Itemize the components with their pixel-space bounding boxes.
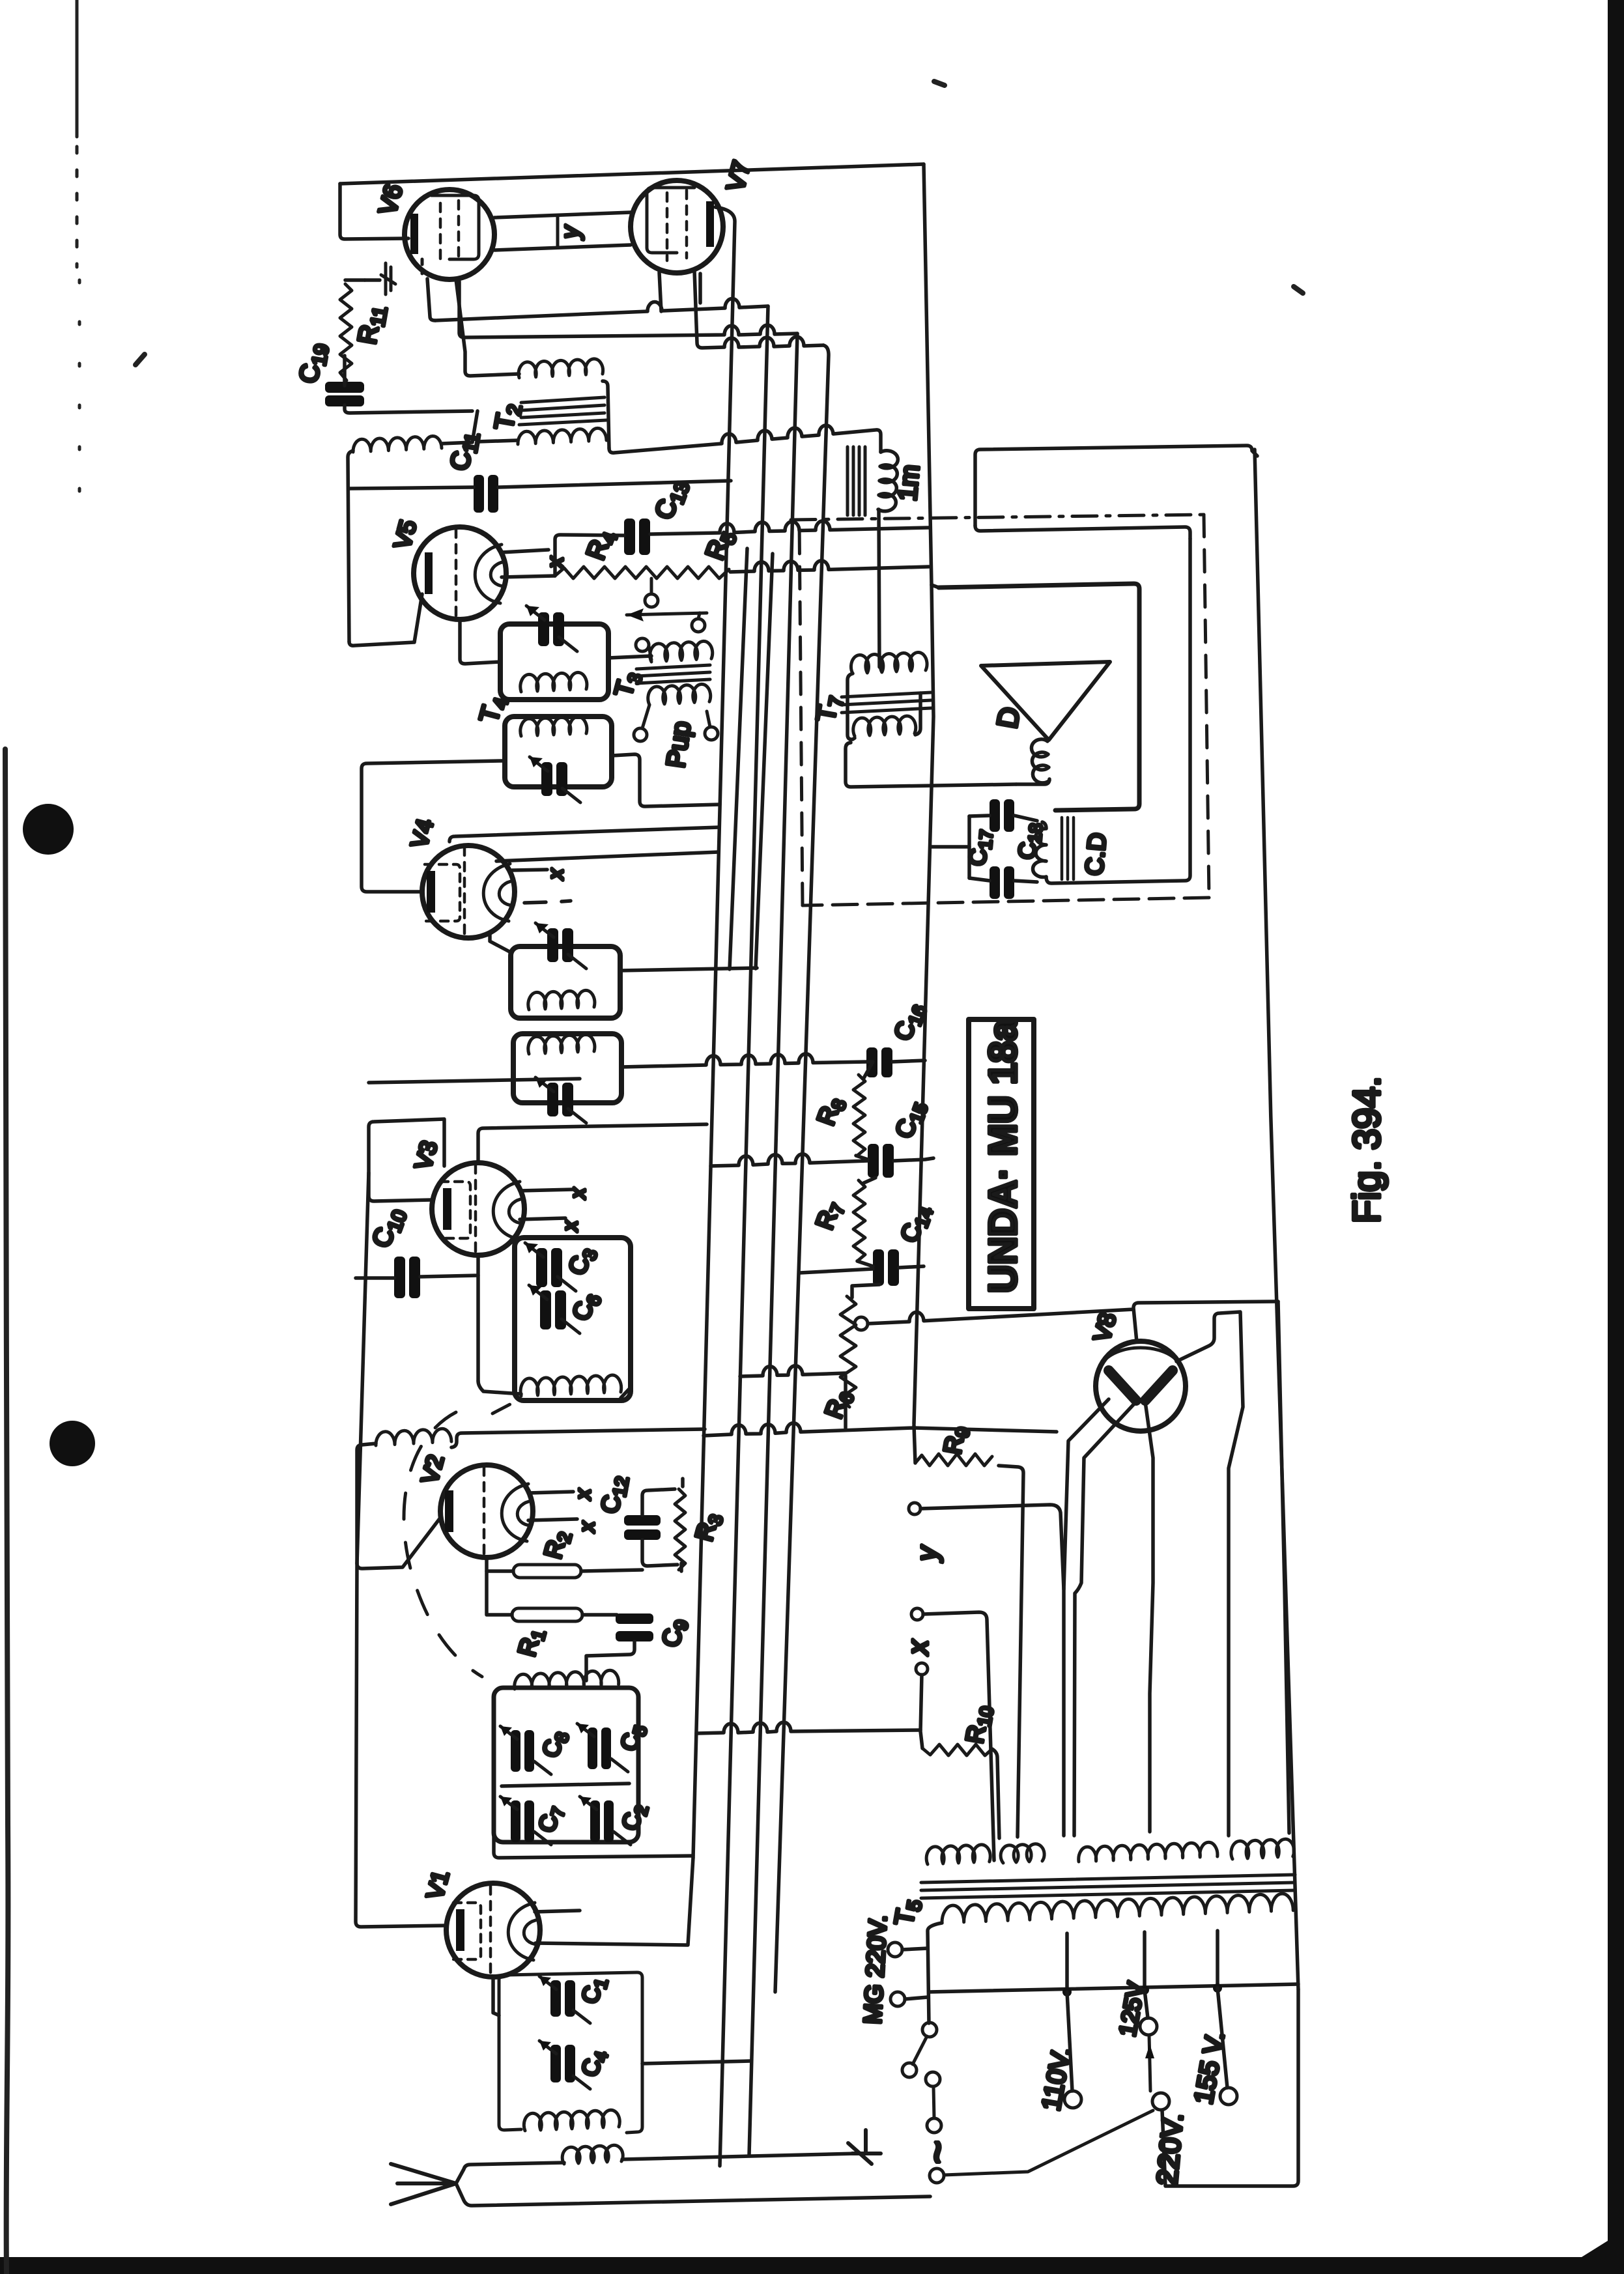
wire C19 bottom to T2 primary left bbox=[345, 405, 472, 413]
wire trimmer mid rail bbox=[502, 1784, 629, 1786]
stray marks bbox=[135, 354, 145, 365]
wire V5 x stub top bbox=[502, 550, 548, 552]
wire grid coupling box top bbox=[494, 212, 631, 218]
box V3 tuned circuit bbox=[515, 1238, 631, 1400]
wire R5 right lead bbox=[730, 561, 929, 572]
coil V2 grid tank bbox=[376, 1428, 451, 1445]
wire R9 left lead from busE corner bbox=[914, 1425, 915, 1463]
wire V5 cathode to can A bbox=[460, 619, 500, 664]
wire C10 left lead bbox=[356, 1276, 394, 1280]
wire T7 sec right to speaker bbox=[915, 693, 920, 735]
wire V8 right side down bbox=[1176, 1312, 1243, 1836]
trimmer C8 bbox=[511, 1730, 534, 1772]
IF can A (below V5): box with trimmer cap top, coil bottom bbox=[500, 606, 608, 700]
wire C13 left lead bbox=[555, 535, 624, 576]
wire coil to bus bbox=[478, 1381, 631, 1398]
wire V8 left lead bbox=[1064, 1399, 1109, 1836]
capacitor C17 bbox=[990, 866, 1014, 899]
tap 155V bbox=[1218, 1988, 1227, 2088]
IF can B bbox=[505, 717, 612, 803]
wire R7 top bbox=[864, 1178, 876, 1183]
wire antenna top line bbox=[456, 2163, 564, 2183]
wire V1 grid from long left vertical bbox=[356, 1173, 447, 1927]
wire h run at 1782 from bus bbox=[711, 1154, 868, 1166]
wire can A right to T3 bbox=[608, 656, 651, 658]
wire V1 x stubs bbox=[535, 1911, 580, 1912]
capacitor C12 bbox=[624, 1515, 661, 1540]
wire can D left link down bbox=[369, 1079, 580, 1083]
wire y lead right bbox=[920, 1505, 1064, 1589]
tube V1 bbox=[446, 1883, 540, 1977]
wire grid coupling box bottom bbox=[494, 245, 631, 250]
wire 1m bottom to T7 primary bbox=[879, 509, 879, 667]
coil in can B bbox=[520, 717, 587, 736]
wire V5 grid left bbox=[349, 594, 422, 646]
wire rail lead to bus bbox=[932, 845, 969, 849]
speaker cone D triangle bbox=[981, 662, 1110, 740]
wire bus B bbox=[720, 306, 768, 2166]
wire R1 left lead bbox=[487, 1571, 512, 1615]
wire V7 lead left drop bbox=[659, 272, 661, 311]
coil T2 secondary right winding bbox=[518, 428, 606, 444]
T5 core bbox=[921, 1875, 1295, 1898]
wire V8 anode top to frame line bbox=[1133, 1301, 1278, 1342]
dashed box bottom bbox=[803, 898, 1209, 905]
box outline drawn as path (open top-left where tube lead enters) bbox=[499, 1972, 642, 2133]
svg-text:~: ~ bbox=[915, 2140, 960, 2164]
terminal MG top bbox=[888, 1942, 902, 1957]
IF can D bbox=[513, 1034, 621, 1123]
wire V1 plate right to bus bbox=[535, 1858, 693, 1945]
svg-text:y: y bbox=[911, 1544, 943, 1563]
wire R10 right down to T5 bbox=[992, 1749, 999, 1838]
capacitor C18 bbox=[990, 799, 1014, 832]
wire T7 sec bottom run bbox=[846, 743, 1016, 787]
box around D speaker bbox=[939, 584, 1139, 810]
wire C12 top lead bbox=[642, 1489, 675, 1515]
wire right frame bottom hook to 220V bbox=[1162, 1989, 1298, 2186]
wire V4 cathode down to can C bbox=[490, 933, 511, 952]
wire h run 2196 bbox=[704, 1423, 1057, 1436]
wire can B right lead bbox=[612, 754, 720, 806]
wire C11 left lead bbox=[349, 487, 474, 489]
wire wiper arrow run bbox=[627, 613, 707, 615]
wire MG top lead bbox=[902, 1948, 928, 1950]
wire bus C companion (doubled run) bbox=[756, 554, 773, 969]
trimmer C1 bbox=[550, 1980, 575, 2017]
wire V7 lead right drop bbox=[694, 271, 823, 348]
wire C10 right lead to V3 cathode bbox=[420, 1256, 478, 1277]
wire R2 right lead bbox=[581, 1570, 642, 1571]
left edge scratch bbox=[5, 749, 8, 2274]
dashed box left side bbox=[799, 521, 803, 905]
capacitor C15 bbox=[868, 1144, 894, 1178]
junction dots bbox=[1062, 1987, 1072, 1997]
V1 tuned box bbox=[499, 1972, 642, 2133]
terminal stub above R10 bbox=[916, 1663, 928, 1675]
wire V3 cathode down bbox=[476, 1275, 480, 1381]
coil T2 primary (top) bbox=[519, 359, 603, 378]
tube V7 bbox=[631, 180, 723, 273]
wire R3 ends bbox=[681, 1479, 683, 1571]
resistor cartridge R1 bbox=[512, 1608, 582, 1621]
trimmer cap in can A bbox=[538, 612, 564, 646]
transformer T5 HT winding bbox=[1079, 1842, 1218, 1862]
wire bus A bbox=[693, 207, 735, 1858]
wire R6 wiper to busE bbox=[868, 1309, 1133, 1324]
svg-text:x: x bbox=[558, 1220, 582, 1232]
dashed box right side bbox=[1204, 515, 1209, 898]
binding hole 2 bbox=[50, 1421, 95, 1466]
wire R1 right lead bbox=[582, 1613, 617, 1617]
svg-text:Fig. 394.: Fig. 394. bbox=[1346, 1076, 1388, 1223]
transformer T7 primary coil bbox=[851, 652, 927, 674]
wire h3 to 1m choke bbox=[609, 425, 881, 453]
wire V2 x stubs bbox=[528, 1492, 577, 1520]
wire C14 junction bbox=[857, 1261, 924, 1268]
wire switch lever to 220V bbox=[944, 2111, 1153, 2175]
band switch dashed arc bbox=[404, 1412, 482, 1677]
resistor R8 bbox=[853, 1075, 865, 1156]
scan edge bottom bar bbox=[0, 2241, 1608, 2274]
coil T3 primary bbox=[650, 641, 713, 662]
svg-text:x: x bbox=[902, 1639, 934, 1656]
coil V3 cathode tank bbox=[520, 1375, 621, 1396]
switch bottom contact bbox=[930, 2168, 944, 2183]
wire V2 grid left bbox=[357, 1518, 440, 1569]
capacitor C9 bbox=[616, 1613, 653, 1642]
capacitor C16 bbox=[866, 1047, 892, 1077]
wire T5 primary left drop bbox=[928, 1923, 942, 2023]
wire T2 mid link bbox=[442, 411, 518, 444]
C.D core bbox=[1062, 817, 1074, 879]
wire C12 bottom lead bbox=[642, 1540, 677, 1566]
wire top frame line bbox=[340, 164, 924, 184]
binding hole 1 bbox=[23, 804, 74, 855]
coil T2 secondary left winding bbox=[353, 436, 442, 452]
resistor R4 + R5 zigzag bbox=[555, 567, 729, 578]
wire into D box bbox=[932, 585, 939, 588]
choke 1m core bbox=[848, 447, 865, 515]
wire R9 right lead down bbox=[999, 1466, 1023, 1837]
wire T2 primary right lead bbox=[603, 381, 609, 448]
field coil C.D winding bbox=[1033, 822, 1046, 877]
wiper of R4/R5 potentiometer bbox=[645, 594, 658, 607]
svg-text:y: y bbox=[557, 225, 584, 240]
tube V5 bbox=[414, 527, 506, 619]
osc trimmer box bbox=[494, 1688, 638, 1845]
wire h2 run bbox=[459, 281, 797, 337]
wire C15/R8 junction bbox=[856, 1156, 933, 1161]
resistor R11 bbox=[340, 284, 352, 380]
wire V5 x stub bottom bbox=[502, 576, 555, 577]
oscillator coil bbox=[515, 1670, 619, 1689]
transformer T2 core bbox=[519, 397, 606, 425]
wire coil left to long vertical bbox=[357, 1443, 376, 1563]
wire V3 x stubs bbox=[520, 1189, 573, 1219]
wire h run at 1950 from left bbox=[800, 1269, 873, 1273]
wire right frame vertical bbox=[1255, 449, 1298, 1989]
svg-text:x: x bbox=[571, 1488, 595, 1501]
wire C11 right lead bbox=[498, 481, 731, 487]
wire coil right run bbox=[451, 1429, 705, 1447]
T3 terminals bottom bbox=[634, 728, 647, 741]
tap 125V bbox=[1145, 1990, 1148, 2018]
UNDA MU 18a label box bbox=[969, 1019, 1034, 1309]
T7 core bbox=[842, 692, 932, 713]
IF can C bbox=[511, 923, 620, 1018]
trimmer C6 bbox=[540, 1290, 566, 1329]
wire R2 left lead from V2 cathode bbox=[487, 1558, 513, 1571]
svg-text:MG 220V.: MG 220V. bbox=[859, 1914, 892, 2025]
wire bus B companion (doubled run) bbox=[730, 548, 747, 969]
wire R6 bottom bbox=[740, 1366, 846, 1428]
wire C18 leads bbox=[969, 816, 1037, 821]
wire T2 sec left drop bbox=[348, 451, 353, 642]
svg-text:C.D: C.D bbox=[1081, 832, 1112, 877]
wire busA top hook bbox=[698, 274, 702, 303]
trimmer C3 bbox=[536, 1248, 562, 1287]
capacitor C10 bbox=[394, 1257, 420, 1298]
coil in can A bbox=[520, 672, 587, 692]
wire stub lead down to h-run bbox=[920, 1675, 922, 1748]
wire tap bus bbox=[929, 1984, 1298, 1992]
switch contact pair bbox=[926, 2072, 940, 2086]
trimmer C5 bbox=[588, 1727, 611, 1769]
wire antenna line to ground (right) bbox=[622, 2153, 857, 2159]
svg-text:1m: 1m bbox=[893, 464, 925, 502]
transformer T3 with Pup bbox=[634, 638, 718, 741]
wire C17 leads bbox=[969, 878, 1037, 882]
wire bus D bbox=[775, 345, 829, 1992]
wire T7 primary left drop bbox=[848, 674, 855, 739]
wire R11 top to ground bbox=[345, 278, 365, 282]
wire V4 grid from can B left bbox=[362, 761, 502, 892]
svg-text:x: x bbox=[544, 868, 567, 881]
wire osc box bottom rail bbox=[494, 1832, 693, 1858]
wire T5 tap verticals bbox=[1067, 1931, 1218, 1992]
wire right staircase upper bbox=[975, 446, 1257, 526]
ground top (V6 grid return) bbox=[365, 263, 395, 294]
wire V3 plate top run bbox=[478, 1124, 707, 1163]
capacitor C19 bbox=[325, 382, 364, 406]
capacitor C13 bbox=[624, 519, 650, 555]
wire h-run 2658 bbox=[696, 1722, 920, 1733]
dashed box around detector/speaker: top dash-dot bbox=[791, 515, 1204, 520]
scan edge right bar bbox=[1608, 0, 1624, 2274]
terminal y bbox=[909, 1503, 920, 1514]
antenna symbol bbox=[391, 2164, 456, 2204]
wire top-left drop to V6 cathode bbox=[340, 184, 408, 239]
wire V6 cathode drop bbox=[427, 279, 435, 320]
wire C4 right lead out of box bbox=[642, 2061, 750, 2064]
T7 secondary coil bbox=[853, 716, 916, 736]
wire can D right lead bbox=[621, 1054, 868, 1067]
wire C17C18 rail left bbox=[967, 816, 971, 878]
wire V6 anode drop to T2 primary bbox=[456, 279, 519, 376]
choke 1m winding bbox=[878, 451, 898, 511]
coil T3 secondary bbox=[648, 684, 711, 705]
wire C.D bottom to inner box bbox=[1046, 539, 1190, 883]
capacitor C11 bbox=[474, 475, 498, 513]
wire V4 plate lines right bbox=[449, 827, 719, 842]
wire x lead right bbox=[923, 1612, 994, 1860]
tube V2 bbox=[440, 1465, 533, 1557]
trimmer C4 bbox=[550, 2045, 575, 2082]
wire MG bottom lead bbox=[905, 1997, 928, 1999]
wire can C right lead bbox=[620, 968, 757, 971]
T5 primary winding bbox=[942, 1894, 1293, 1923]
tube V3 bbox=[432, 1163, 524, 1255]
wire V4 x stubs bbox=[512, 870, 571, 903]
switch arm upper bbox=[922, 2023, 937, 2037]
wire speaker box inner top bbox=[975, 526, 1190, 539]
svg-text:x: x bbox=[575, 1521, 599, 1533]
R6 wiper bbox=[855, 1317, 868, 1330]
wire R8 top to C16 bbox=[864, 1062, 873, 1078]
wire C19 top lead bbox=[343, 356, 347, 386]
speaker voice coil bbox=[1031, 739, 1049, 783]
wire h1 heater run bbox=[435, 299, 768, 320]
wire C9 bottom lead bbox=[586, 1642, 634, 1681]
capacitor C14 bbox=[873, 1249, 899, 1286]
wire antenna earth line bbox=[456, 2183, 930, 2206]
tube V6 bbox=[405, 190, 494, 279]
wire R6 top bbox=[852, 1285, 879, 1298]
wire voice coil return bbox=[1016, 779, 1049, 784]
tube V8 rectifier bbox=[1096, 1341, 1186, 1431]
resistor R9 bbox=[915, 1454, 992, 1466]
terminal MG bottom bbox=[890, 1992, 905, 2006]
antenna coupling coil bbox=[562, 2145, 623, 2164]
wire V8 cathode leads down bbox=[1074, 1402, 1136, 1836]
T3 terminal top bbox=[636, 638, 649, 651]
terminal 220V contact bbox=[1152, 2093, 1169, 2110]
svg-text:220V.: 220V. bbox=[1151, 2112, 1189, 2187]
trimmer C7 bbox=[511, 1800, 534, 1842]
ground bottom bbox=[848, 2130, 881, 2164]
svg-text:UNDA· MU 18a: UNDA· MU 18a bbox=[981, 1019, 1025, 1293]
wire bus E (AVC line from top corner down to R9) bbox=[914, 585, 933, 1424]
terminal x bbox=[911, 1608, 923, 1620]
wire V3 grid loop from left bbox=[369, 1119, 444, 1201]
wire C13 right lead bbox=[650, 521, 929, 534]
resistor R3 bbox=[675, 1489, 685, 1570]
trimmer cap in can B bbox=[541, 762, 567, 796]
T3 core bbox=[636, 665, 710, 683]
transformer T5 rect heater winding bbox=[1231, 1839, 1294, 1859]
tube V4 bbox=[422, 846, 515, 938]
wire C16 right lead bbox=[892, 1060, 925, 1062]
trimmer C2 bbox=[590, 1800, 614, 1842]
wire V8 far right drop bbox=[1278, 1301, 1289, 1833]
wire bus C bbox=[749, 334, 797, 2155]
svg-text:x: x bbox=[566, 1187, 590, 1200]
resistor R10 bbox=[922, 1744, 992, 1755]
transformer T5 heater winding 2 bbox=[1001, 1844, 1044, 1863]
tap 110V bbox=[1067, 1992, 1072, 2091]
resistor R7 bbox=[853, 1180, 865, 1261]
top-left registration line bbox=[76, 0, 79, 137]
wire top-right drop (B+ line to output stage) bbox=[924, 164, 932, 585]
resistor cartridge R2 bbox=[513, 1565, 581, 1578]
transformer T5 heater winding 1 bbox=[926, 1845, 990, 1864]
potentiometer R6 bbox=[840, 1296, 856, 1407]
wire coupling divider bbox=[556, 216, 560, 248]
wire V1 cathode down to box bbox=[493, 1977, 499, 2015]
antenna primary coil inside box bottom bbox=[524, 2110, 620, 2131]
